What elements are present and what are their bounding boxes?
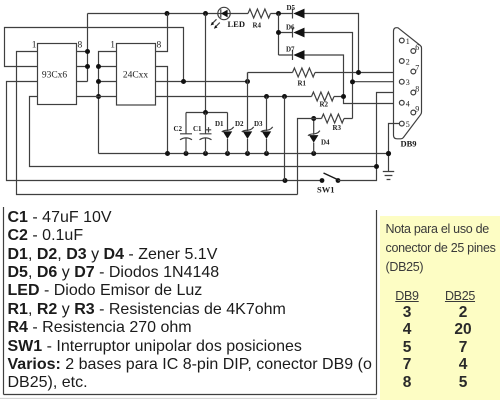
svg-text:8: 8 [415, 85, 419, 94]
svg-text:3: 3 [406, 78, 410, 87]
resistor R1 [248, 68, 412, 88]
svg-text:SW1: SW1 [317, 185, 334, 195]
component list box border [4, 207, 377, 395]
wire DI feed x285 [284, 97, 286, 181]
pin 1 label U2 [110, 41, 115, 51]
diode D7 [279, 46, 400, 104]
svg-text:9: 9 [415, 105, 419, 114]
pin circles DB9 6-9 [411, 49, 416, 115]
wire DB9 pin5 to ground [386, 124, 400, 172]
svg-text:R3: R3 [333, 124, 342, 132]
pin 1 label U1 [32, 41, 37, 51]
svg-text:DB9: DB9 [401, 139, 417, 149]
switch SW1 [283, 93, 412, 195]
wire U1 pin3 to DI bus [7, 82, 323, 181]
pin 8 label U2 [157, 41, 162, 51]
zener diode D1 [215, 113, 234, 154]
svg-text:R1: R1 [298, 80, 307, 88]
component list text [8, 209, 372, 393]
ground symbol [383, 172, 394, 180]
IC U1 93Cx6 body [38, 44, 77, 105]
svg-text:4: 4 [406, 99, 410, 108]
note text [386, 220, 496, 276]
svg-text:D5: D5 [287, 4, 296, 12]
svg-text:D6: D6 [286, 24, 295, 32]
wire VCC feed to capacitors [186, 14, 228, 116]
zener diode D2 [235, 73, 254, 154]
resistor R3 [298, 114, 353, 195]
svg-text:LED: LED [228, 19, 245, 29]
svg-text:8: 8 [78, 41, 83, 51]
svg-text:R4: R4 [253, 22, 262, 30]
svg-text:8: 8 [157, 41, 162, 51]
table header DB9 [390, 287, 424, 306]
svg-text:7: 7 [415, 64, 419, 73]
node VCC junction dots on rail [165, 11, 282, 16]
svg-text:D1: D1 [215, 120, 224, 128]
capacitor C2 [174, 113, 193, 154]
svg-text:24Cxx: 24Cxx [123, 71, 149, 81]
wire U1 pin1 to CS bus [17, 52, 298, 195]
svg-text:93Cx6: 93Cx6 [42, 71, 68, 81]
svg-text:5: 5 [406, 120, 410, 129]
pin digit labels DB9 [406, 37, 420, 129]
svg-text:D2: D2 [235, 120, 244, 128]
wire U2 left pins 1-4 ground feed [96, 52, 117, 154]
wire VCC rail top [88, 14, 359, 82]
pin 8 label U1 [78, 41, 83, 51]
wire U1 right pin stubs 8,7,6 [77, 49, 91, 82]
wire ground link U1 pin5 to U2 pin4 [77, 96, 117, 98]
zener diode D3 [254, 97, 273, 154]
svg-text:D4: D4 [321, 139, 330, 147]
svg-text:1: 1 [110, 41, 115, 51]
IC U2 24Cxx body [117, 44, 156, 106]
wire TXD line to DB9 pin3 [350, 79, 399, 84]
resistor R2 [312, 92, 347, 109]
table column DB9 values [390, 304, 424, 392]
wire SCL net U2 pin6 [156, 79, 251, 84]
zener diode D4 [308, 116, 330, 154]
svg-text:D3: D3 [254, 120, 263, 128]
resistor R4 [248, 9, 271, 30]
svg-text:C2: C2 [174, 125, 183, 133]
diode D5 [287, 4, 305, 19]
svg-text:D7: D7 [286, 46, 295, 54]
wire U1 pin4 to DO bus [30, 97, 377, 167]
table column DB25 values [446, 304, 480, 392]
connector J1 DB9 outline [394, 28, 422, 149]
LED [211, 7, 245, 29]
svg-text:1: 1 [406, 37, 410, 46]
svg-text:C1: C1 [193, 125, 202, 133]
wire U2 pin7 to ground bus [156, 67, 168, 154]
wire U2 pin8 to VCC rail [156, 14, 168, 52]
table header DB25 [443, 287, 477, 306]
bottom hairline [0, 397, 377, 399]
wire SDA net U2 pin5 [156, 94, 312, 99]
diode D6 [276, 14, 353, 119]
svg-text:R2: R2 [320, 101, 329, 109]
svg-text:1: 1 [32, 41, 37, 51]
svg-text:2: 2 [406, 58, 410, 67]
yellow note box [380, 216, 500, 400]
ground bus [99, 151, 390, 156]
wire U1 pin2 clock loop top [5, 28, 184, 82]
svg-text:6: 6 [415, 43, 419, 52]
capacitor C1 [193, 113, 212, 154]
pin circles DB9 1-5 [399, 38, 404, 126]
